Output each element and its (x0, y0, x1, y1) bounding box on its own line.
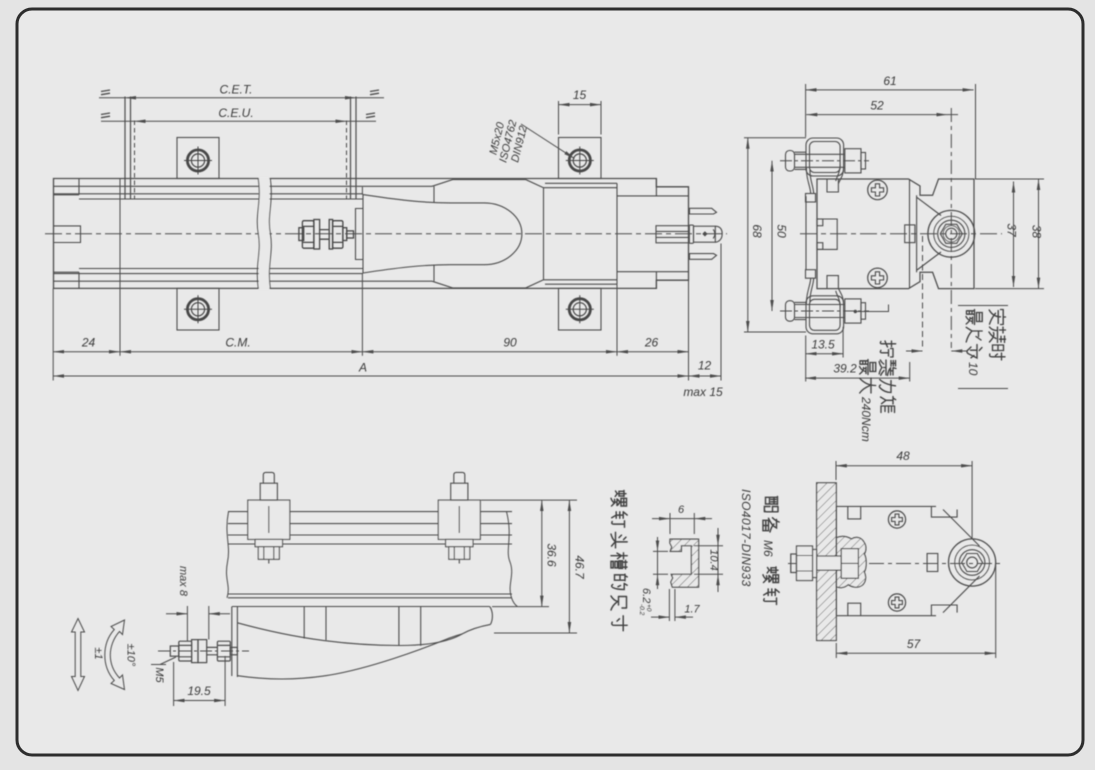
center pin dot (702, 231, 707, 236)
travel limit solid lines (125, 97, 356, 200)
dim 6.2 arrows (657, 537, 659, 551)
wide section bottom (432, 280, 544, 288)
break gap (259, 177, 270, 290)
ext 6 (670, 513, 694, 534)
dim 61 (806, 89, 974, 91)
support diagonals (917, 198, 941, 271)
svg-text:C.E.U.: C.E.U. (218, 106, 253, 120)
svg-text:10.4: 10.4 (708, 549, 720, 570)
centerline bottom bolt (780, 310, 869, 312)
svg-text:90: 90 (503, 336, 517, 350)
travel limit dashed lines (135, 121, 347, 200)
svg-text:-0.2: -0.2 (638, 604, 645, 616)
svg-text:max 15: max 15 (683, 385, 723, 399)
ext 61 right / body edge extension (975, 84, 977, 179)
dim 52 (806, 114, 947, 116)
dim 13.5 (806, 353, 843, 355)
svg-text:+0: +0 (645, 604, 652, 612)
bolt shaft (786, 301, 795, 322)
washer 2 (329, 220, 332, 250)
clamp block left (248, 472, 290, 563)
dim text 6.2 tol (638, 588, 652, 616)
bottom DIN clamp (786, 270, 866, 334)
washer 1 (314, 220, 320, 250)
rail silhouette (54, 179, 689, 289)
clamp loop (806, 138, 844, 176)
bottom notch (827, 276, 838, 289)
rail lines (54, 185, 433, 187)
plate right end curl (490, 607, 493, 625)
bottom-left view dimensions (72, 500, 578, 706)
screw bottom (868, 268, 888, 288)
center pin barrel (694, 226, 716, 242)
cross-section dimensions (744, 84, 1044, 389)
wall view dims (836, 461, 996, 658)
top step (931, 506, 957, 517)
C.E.T. dimension line (125, 97, 356, 99)
note 安装时 column (989, 310, 1006, 361)
clamp legs (806, 168, 813, 194)
svg-text:57: 57 (907, 637, 922, 651)
note 最大240Ncm column (859, 360, 876, 442)
wide section top (432, 180, 544, 188)
ext 46.7 bottom (494, 632, 577, 634)
svg-text:±1: ±1 (92, 647, 104, 659)
svg-text:36.6: 36.6 (545, 543, 559, 567)
section ticks (433, 186, 435, 281)
svg-text:A: A (358, 361, 367, 375)
bolt shaft hole (817, 556, 842, 570)
dim 36.6 (541, 500, 543, 606)
dim C.M. (120, 351, 362, 353)
blade upper curve (237, 623, 490, 646)
dim 19.5 (174, 700, 226, 702)
note 最长为10 column (966, 310, 982, 376)
dim 10.4 arrows (717, 528, 719, 546)
dim 1.7 arrows (651, 616, 669, 618)
svg-text:6.2: 6.2 (640, 588, 652, 603)
label ISO4017-DIN933 (739, 489, 753, 587)
svg-text:240Ncm: 240Ncm (859, 396, 873, 442)
body outline (817, 179, 974, 289)
svg-text:M6: M6 (761, 540, 775, 557)
mid tab (927, 554, 938, 572)
bracket clip (356, 209, 364, 260)
connector pins (689, 208, 722, 259)
ext 68 top (744, 137, 806, 139)
svg-text:max 8: max 8 (177, 566, 189, 597)
center pin collar (689, 225, 693, 243)
bolt cap (299, 228, 304, 241)
dim 57 (836, 652, 995, 654)
dim 6 arrows (652, 518, 670, 520)
torque leader (854, 310, 857, 313)
bottom step (931, 605, 957, 616)
pin bottom blade (690, 254, 717, 260)
note 拧紧力矩 column (879, 341, 896, 413)
ext 36.6 bottom (492, 606, 549, 608)
foot top-left (177, 138, 219, 179)
nut 1 (302, 221, 314, 249)
ext 13.5 (806, 327, 843, 358)
svg-text:13.5: 13.5 (811, 338, 835, 352)
boss axis dash-dot vertical (950, 108, 952, 348)
dim max8 arrows (166, 613, 187, 615)
svg-text:38: 38 (1030, 225, 1044, 239)
dim 90 (362, 351, 617, 353)
screw bottom (888, 594, 905, 611)
M5 stud assembly (170, 640, 237, 663)
cursor block (544, 188, 617, 280)
head inner lines (617, 179, 689, 289)
body bottom edge (836, 615, 936, 617)
bolt shaft (786, 151, 795, 172)
bolt tip (791, 554, 797, 573)
dim 68 (747, 138, 749, 332)
body top edge (836, 505, 936, 507)
clamp foot (806, 270, 816, 279)
break squiggle right (269, 179, 271, 289)
svg-text:1.7: 1.7 (684, 604, 700, 616)
hatched C profile (670, 539, 699, 587)
tip (347, 231, 354, 238)
top notch (848, 506, 861, 519)
extension line body left (52, 288, 54, 380)
svg-text:C.M.: C.M. (225, 336, 250, 350)
ext 36.6 46.7 top (481, 499, 577, 501)
dim A (53, 375, 688, 377)
dim 39.2 (805, 377, 910, 379)
mid right tab (905, 225, 915, 243)
nut 2 (333, 221, 343, 249)
centerline top bolt (780, 160, 869, 162)
ext 48 (836, 461, 972, 539)
extension line end cap plane (119, 179, 121, 356)
extension line pin tip (720, 244, 722, 381)
dim 15 (559, 104, 602, 106)
centerline (45, 233, 727, 235)
top notch (827, 179, 838, 192)
bolt head (845, 149, 861, 173)
dim 12 (689, 375, 722, 377)
svg-text:ISO4017-DIN933: ISO4017-DIN933 (739, 489, 753, 587)
ext 10.4 (694, 546, 723, 575)
ext 37 38 bottom (975, 288, 1044, 290)
ext 1.7 (669, 589, 675, 621)
svg-text:M5: M5 (153, 667, 165, 683)
dim 24 (53, 351, 120, 353)
bottom diagonal (943, 576, 980, 613)
screw top (868, 180, 888, 200)
dim 38 (1038, 179, 1040, 289)
C.E.U. dimension line (135, 120, 347, 122)
hatched weld boss (837, 536, 867, 587)
svg-text:15: 15 (573, 88, 587, 102)
dim max8 ext (187, 606, 208, 641)
body left edge (835, 506, 837, 615)
pin top blade (690, 208, 717, 214)
svg-text:39.2: 39.2 (833, 362, 857, 376)
svg-text:48: 48 (896, 449, 910, 463)
svg-text:6: 6 (678, 504, 685, 516)
M5 leader (151, 657, 176, 665)
svg-text:24: 24 (81, 336, 96, 350)
svg-text:46.7: 46.7 (573, 555, 587, 580)
ext 37 38 top (975, 178, 1044, 180)
extension line head right (688, 280, 690, 380)
ext 39.2 (806, 358, 910, 382)
rail side lines (228, 512, 512, 598)
cursor paddle with clevis slot (356, 179, 690, 289)
bolt head (845, 299, 861, 323)
boss rings (928, 210, 975, 257)
step (343, 228, 347, 241)
extension line cursor plane (361, 187, 363, 356)
equality marks (101, 90, 110, 95)
left plug (54, 226, 81, 243)
hidden line screw plane (922, 236, 924, 348)
swivel plate (232, 607, 490, 646)
interface plane (916, 195, 918, 272)
rail plate edge (805, 196, 807, 270)
svg-text:26: 26 (644, 336, 659, 350)
rail break right (507, 512, 518, 607)
clamp foot (806, 194, 816, 203)
target symbols on feet (184, 147, 594, 324)
svg-text:10: 10 (966, 362, 980, 376)
svg-text:C.E.T.: C.E.T. (220, 83, 253, 97)
rail break left (226, 512, 228, 598)
dim 37 (1013, 182, 1015, 288)
extension line rail end (616, 284, 618, 356)
clamp loop (806, 296, 844, 334)
break squiggle left (257, 179, 259, 289)
dim 15 ext lines (559, 101, 602, 135)
top view dimensions (53, 101, 721, 381)
svg-text:68: 68 (750, 224, 764, 238)
centerline horizontal body (800, 233, 1002, 235)
boss rings (949, 539, 996, 586)
centerline (788, 563, 1002, 565)
dim 50 (771, 161, 773, 311)
label M5x20 ISO4762 DIN912 (486, 116, 530, 167)
dim 48 (836, 465, 972, 467)
left tab (817, 219, 837, 249)
screw top (888, 511, 905, 528)
clamp legs (806, 278, 813, 304)
rail end line (616, 183, 618, 284)
svg-text:61: 61 (883, 74, 896, 88)
blade lower curve (237, 634, 462, 679)
install note rules (958, 306, 1008, 389)
bottom notch (848, 603, 861, 616)
embedded nut (841, 549, 858, 579)
foot bottom-right (559, 288, 602, 330)
dim 46.7 (568, 500, 570, 633)
label 螺钉头槽的尺寸 column (611, 491, 627, 631)
top diagonal (943, 510, 980, 547)
svg-text:50: 50 (775, 224, 789, 238)
ext 61 left (805, 84, 807, 137)
C.E.T. / C.E.U. travel dimension (99, 90, 384, 200)
clevis outline (363, 195, 522, 273)
svg-text:52: 52 (870, 99, 884, 113)
dim 26 (617, 351, 689, 353)
svg-text:12: 12 (698, 359, 712, 373)
svg-text:±10°: ±10° (125, 644, 137, 667)
cursor clamp bolt assembly (299, 220, 354, 250)
arrow angular ±10 (105, 620, 125, 690)
label 配备M6螺钉 column (761, 497, 779, 605)
hatched wall (817, 483, 837, 641)
top DIN clamp (786, 138, 866, 202)
clamp block right (438, 472, 480, 563)
bolt washer (813, 550, 817, 578)
mounting feet of top view (177, 138, 601, 331)
center pin cap (715, 226, 722, 242)
ext 6.2 (653, 551, 668, 574)
foot bottom-left (177, 288, 219, 330)
end cap (54, 179, 80, 289)
dim 19.5 ext (174, 656, 226, 706)
ext 68 bottom (744, 331, 806, 333)
stud centerline (158, 650, 249, 652)
arrow linear ±1 (72, 619, 85, 691)
ext 57 (836, 565, 995, 658)
gap 10 arrows (906, 350, 923, 352)
leader M5x20 (521, 124, 575, 159)
svg-text:19.5: 19.5 (187, 684, 211, 698)
connector socket (656, 226, 689, 243)
plate left edge (232, 607, 238, 678)
bolt head (797, 546, 813, 581)
foot top-right (559, 138, 602, 179)
shaft (320, 230, 330, 240)
svg-text:37: 37 (1005, 223, 1019, 238)
